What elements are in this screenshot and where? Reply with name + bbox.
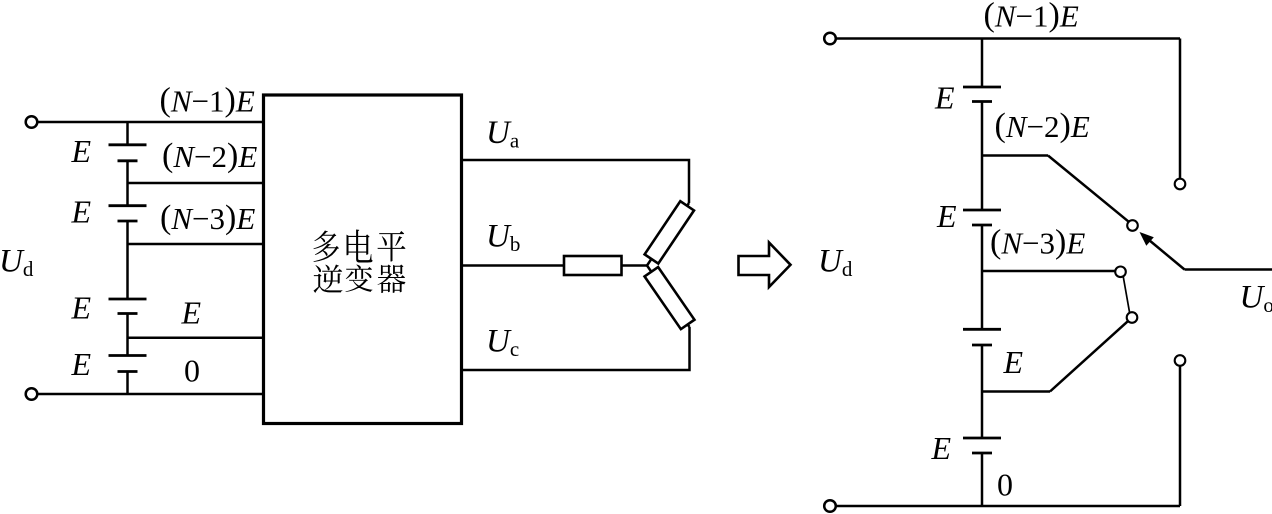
resistor load b bbox=[564, 256, 622, 275]
wire tap E right bbox=[982, 390, 1050, 393]
terminal right top bbox=[824, 33, 836, 45]
svg-text:Ub: Ub bbox=[486, 219, 520, 257]
wire link contact (N-3) to contact E bbox=[1123, 276, 1129, 312]
label duo bbox=[313, 231, 339, 263]
svg-text:Uc: Uc bbox=[486, 324, 519, 362]
wire tap (N-3)E left bbox=[128, 243, 264, 246]
contact circle top right bbox=[1175, 179, 1186, 190]
svg-text:(​N−1)​E: (​N−1)​E bbox=[160, 81, 255, 118]
terminal left bottom bbox=[26, 388, 38, 400]
resistor load a bbox=[645, 201, 694, 263]
wire left bus seg3 bbox=[126, 221, 129, 299]
arrowhead wiper bbox=[1140, 232, 1154, 246]
svg-text:E: E bbox=[71, 194, 92, 230]
wire star to Ra bbox=[647, 203, 689, 266]
label ni bbox=[314, 265, 343, 293]
wire right bus seg3 bbox=[981, 225, 984, 329]
svg-text:0: 0 bbox=[184, 353, 200, 389]
terminal left top bbox=[26, 116, 38, 128]
arrow implication bbox=[739, 243, 791, 288]
contact circle E-tap bbox=[1127, 312, 1138, 323]
label bian bbox=[345, 264, 372, 292]
wire tap E left bbox=[128, 337, 264, 340]
wire Uc bbox=[462, 327, 690, 370]
label ping bbox=[378, 231, 406, 262]
wire diagonal (N-2) tap to contact bbox=[1048, 156, 1129, 222]
wire right bus seg5 bbox=[981, 453, 984, 506]
svg-text:(​N−3)​E: (​N−3)​E bbox=[160, 199, 255, 236]
svg-text:E: E bbox=[71, 133, 92, 169]
svg-text:Ua: Ua bbox=[486, 115, 520, 153]
wire left bus seg2 bbox=[126, 161, 129, 206]
svg-text:E: E bbox=[934, 80, 955, 116]
svg-text:Uo: Uo bbox=[1240, 280, 1272, 318]
svg-text:0: 0 bbox=[997, 467, 1013, 503]
svg-text:Ud: Ud bbox=[818, 244, 853, 282]
inverter box U1 bbox=[264, 95, 462, 424]
wire bottom rail 0 left bbox=[37, 393, 263, 396]
svg-text:Ud: Ud bbox=[0, 244, 34, 282]
battery cell E4 right bbox=[963, 438, 1001, 453]
wire right bus seg4 bbox=[981, 345, 984, 438]
wire Ua bbox=[462, 160, 690, 203]
contact circle (N-2) bbox=[1127, 220, 1138, 231]
wire output Uo bbox=[1185, 268, 1272, 271]
wire diagonal E tap to contact bbox=[1050, 321, 1128, 392]
wire Ub to star bbox=[622, 264, 648, 267]
wire left bus seg1 bbox=[126, 122, 129, 145]
svg-text:E: E bbox=[1003, 344, 1024, 380]
wire right bus seg2 bbox=[981, 102, 984, 211]
wire tap (N-2)E left bbox=[128, 182, 264, 185]
battery cell E2 left bbox=[109, 206, 147, 221]
wire drop to contact top right bbox=[1179, 39, 1182, 179]
wire Ub bbox=[462, 264, 565, 267]
wire left bus seg5 bbox=[126, 372, 129, 395]
wire bottom rail right bbox=[836, 505, 1180, 508]
battery cell E4 left bbox=[109, 356, 147, 372]
wire top rail right bbox=[836, 37, 1180, 40]
contact circle (N-3) bbox=[1115, 267, 1126, 278]
svg-text:(​N−2)​E: (​N−2)​E bbox=[162, 137, 257, 174]
wire tap (N-2)E right bbox=[982, 154, 1048, 157]
terminal right bottom bbox=[824, 500, 836, 512]
wire rise to contact bottom right bbox=[1179, 366, 1182, 506]
svg-text:E: E bbox=[931, 430, 952, 466]
label dian bbox=[347, 229, 373, 262]
battery cell E3 right bbox=[963, 329, 1001, 345]
svg-text:E: E bbox=[71, 290, 92, 326]
contact circle bottom right bbox=[1175, 355, 1186, 366]
label qi bbox=[378, 264, 406, 293]
battery cell E1 right bbox=[963, 87, 1001, 102]
resistor load c bbox=[645, 267, 695, 329]
wire top rail (N-1)E left bbox=[37, 121, 263, 124]
svg-text:E: E bbox=[71, 346, 92, 382]
wire right bus seg1 bbox=[981, 39, 984, 88]
svg-text:(​N−1)​E: (​N−1)​E bbox=[984, 0, 1079, 34]
svg-text:(​N−2)​E: (​N−2)​E bbox=[995, 107, 1090, 144]
battery cell E2 right bbox=[963, 210, 1001, 225]
svg-text:E: E bbox=[936, 198, 957, 234]
wire star to Rc bbox=[647, 266, 690, 328]
wire tap (N-3)E right bbox=[982, 270, 1115, 273]
wire left bus seg4 bbox=[126, 314, 129, 356]
battery cell E3 left bbox=[109, 299, 147, 314]
battery cell E1 left bbox=[109, 145, 147, 161]
svg-text:E: E bbox=[181, 295, 202, 331]
svg-text:(​N−3)​E: (​N−3)​E bbox=[990, 223, 1085, 260]
wire wiper arm bbox=[1146, 238, 1185, 270]
